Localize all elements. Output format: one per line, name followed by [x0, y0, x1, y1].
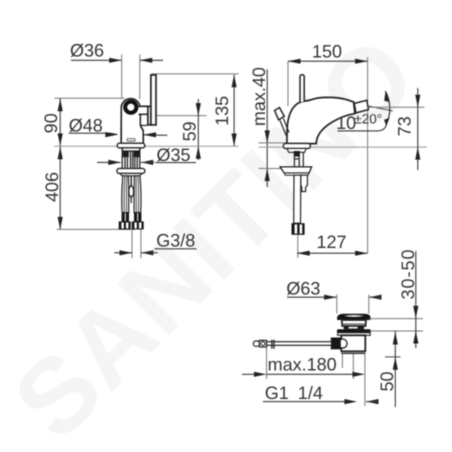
- dimension 50 line and arrows: [394, 331, 396, 407]
- spray axis line: [367, 106, 393, 111]
- escutcheon (side): [283, 143, 310, 148]
- dimension Ø35 leader and arrows: [97, 161, 121, 163]
- hose connectors G3/8: [119, 221, 144, 229]
- rod clamp: [331, 338, 341, 350]
- faucet body (side view): [287, 97, 355, 143]
- aerator (side): [354, 100, 368, 113]
- dimension 30-50 line and arrows: [415, 251, 417, 348]
- svg-text:50: 50: [377, 371, 397, 391]
- dimension 406 arrows: [58, 147, 63, 160]
- valve tail extension lines: [341, 354, 343, 368]
- dimension 150 line and arrows: [288, 60, 368, 62]
- hose tail (side): [297, 235, 299, 258]
- countertop line (side view): [259, 146, 427, 148]
- svg-text:Ø48: Ø48: [69, 115, 103, 135]
- threaded shank (front): [122, 148, 140, 151]
- pull rod (front): [130, 176, 132, 186]
- valve neck: [342, 320, 366, 326]
- max.180 rod extension line: [266, 348, 268, 380]
- max.40 extension lines: [259, 142, 292, 144]
- dimension 135 vertical line and arrows: [233, 75, 235, 146]
- svg-text:max.40: max.40: [249, 67, 269, 126]
- valve plug cap: [337, 314, 371, 320]
- svg-text:Ø36: Ø36: [70, 41, 104, 61]
- rod ball joint: [338, 339, 347, 348]
- node: bottom reference line y229: [57, 228, 135, 230]
- dimension G1 1/4 line and arrows: [263, 401, 345, 403]
- dimension Ø36 lines and arrows: [71, 59, 163, 61]
- supply hose (side): [294, 175, 301, 223]
- svg-text:406: 406: [42, 172, 62, 202]
- svg-text:Ø63: Ø63: [286, 279, 320, 299]
- node: spout-top reference line y98: [55, 97, 125, 99]
- dimension 59 extension line: [157, 115, 207, 117]
- countertop line (front view): [54, 145, 238, 147]
- dimension G3/8 arrows: [114, 252, 132, 254]
- svg-text:max.180: max.180: [268, 355, 337, 375]
- svg-text:127: 127: [317, 232, 347, 252]
- body right edge lower: [140, 114, 143, 143]
- G3/8 extension lines: [131, 230, 133, 259]
- lever rod (side): [300, 75, 304, 103]
- dimension Ø63 line and arrows: [287, 296, 336, 298]
- horizontal pull rod: [267, 342, 332, 346]
- svg-text:135: 135: [212, 96, 232, 126]
- supply hoses (front): [122, 176, 141, 213]
- escutcheon (front): [117, 143, 145, 148]
- valve seat band: [344, 326, 364, 330]
- dimension 73 vertical line and arrows: [417, 88, 419, 170]
- svg-text:G1 1/4: G1 1/4: [265, 383, 323, 403]
- dimension max.180 line and arrows: [242, 373, 255, 375]
- hose dark collars: [122, 212, 129, 221]
- dimension 59 vertical line and arrows: [197, 99, 199, 160]
- valve flange: [337, 329, 371, 332]
- svg-text:73: 73: [394, 116, 414, 136]
- svg-text:G3/8: G3/8: [156, 231, 195, 251]
- svg-text:59: 59: [180, 121, 200, 141]
- dimension 30-50 extension lines: [369, 318, 423, 320]
- lower nut with washer (side): [280, 167, 312, 173]
- dimension 73 extension line: [369, 106, 425, 108]
- angle arc with arrows: [385, 91, 389, 124]
- extension lines 150: [287, 61, 289, 106]
- svg-text:±20°: ±20°: [354, 112, 382, 127]
- extension lines Ø36: [122, 55, 140, 100]
- lower mounting nut (front): [117, 168, 145, 173]
- hose connector (side): [292, 223, 305, 235]
- dimension max.40 line and arrows: [266, 69, 268, 187]
- dimension 50 tick: [385, 356, 401, 358]
- svg-text:10: 10: [336, 113, 356, 133]
- valve body: [341, 335, 365, 351]
- shank assembly (side): [287, 149, 306, 153]
- lever arm (front): [139, 107, 148, 114]
- Ø63 extension lines: [336, 295, 338, 314]
- lever handle (front): [148, 106, 151, 124]
- dimension 90 vertical line: [59, 98, 61, 229]
- svg-text:Ø35: Ø35: [157, 145, 191, 165]
- svg-text:90: 90: [41, 113, 61, 133]
- rod guide tube (side): [301, 175, 308, 191]
- faucet body (front view): [121, 99, 143, 144]
- rod tip: [253, 341, 259, 346]
- svg-text:30-50: 30-50: [398, 248, 418, 299]
- svg-text:150: 150: [312, 41, 342, 61]
- logo mark: [127, 139, 135, 142]
- pivot ring: [125, 102, 136, 113]
- alternate lever position (tilted): [275, 108, 289, 136]
- dimension 135 extension line (lever top): [152, 73, 239, 75]
- dimension Ø48 leader and arrows: [69, 132, 110, 134]
- dimension 127 line and arrows: [297, 252, 368, 254]
- 10±20° leader curve: [338, 125, 387, 131]
